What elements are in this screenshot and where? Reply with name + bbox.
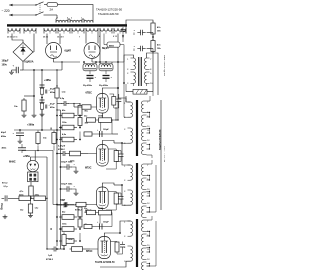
resistor R rail — [55, 85, 66, 98]
TD secondary tap links — [147, 231, 151, 267]
driver tube V3 6N9S — [27, 160, 38, 171]
wire V5 cathode — [108, 149, 116, 151]
label +400v — [44, 79, 51, 82]
T1 primary winding c — [84, 13, 93, 23]
wire switch to T1 primary — [44, 15, 58, 18]
choke Dr1 — [83, 61, 97, 71]
wire V7 plate — [104, 233, 120, 237]
T1 primary jumpers — [56, 18, 84, 20]
svg-text:100μF: 100μF — [2, 60, 9, 63]
wire TB conns — [117, 83, 130, 143]
rail right edge — [158, 60, 161, 210]
wire V7 grid — [90, 248, 98, 250]
wire V4 cathode — [101, 113, 103, 120]
svg-text:100μF: 100μF — [103, 129, 110, 131]
svg-text:2A: 2A — [50, 8, 54, 12]
svg-text:4: 4 — [67, 16, 68, 19]
svg-text:К73В-2: К73В-2 — [75, 210, 83, 212]
wire V6 grid — [88, 204, 97, 206]
T1 secondary winding 8 — [114, 28, 126, 33]
svg-text:1,5к: 1,5к — [35, 208, 39, 210]
cap C Dr2 — [103, 70, 113, 82]
rectifier tube V1 6Ts4P — [46, 43, 62, 59]
wire fuse to T1 primary — [60, 5, 93, 13]
svg-text:47μF: 47μF — [50, 103, 55, 106]
svg-text:12: 12 — [147, 259, 149, 261]
ground R bleed — [22, 113, 27, 117]
svg-text:100μF 160в: 100μF 160в — [61, 162, 73, 164]
svg-text:7: 7 — [147, 102, 148, 104]
transformer TA — [127, 58, 152, 85]
svg-text:11: 11 — [147, 193, 149, 195]
ground C3 — [18, 139, 23, 143]
label TAN70 bottom — [95, 261, 115, 264]
svg-text:16 15 8: 16 15 8 — [57, 37, 65, 39]
TD out wires — [147, 216, 157, 266]
label C3 — [1, 131, 7, 138]
svg-text:100μF 160в: 100μF 160в — [61, 184, 73, 186]
V6 bias row2 — [84, 222, 112, 230]
svg-text:100v: 100v — [2, 63, 8, 66]
T1 secondary winding 3 — [44, 28, 56, 33]
bridge rectifier VD1 KC402A — [13, 43, 33, 62]
ground x34 — [32, 113, 37, 117]
svg-text:1: 1 — [124, 166, 125, 168]
label Rf1 — [157, 26, 162, 33]
label C Dr2 — [99, 84, 109, 87]
wire V6 cathode — [108, 192, 116, 194]
label TAN100 line1 — [96, 8, 122, 12]
input resistor Rg2 — [30, 195, 47, 201]
label out top — [163, 55, 167, 77]
svg-text:~ 220: ~ 220 — [2, 9, 10, 13]
wire V3 below2 — [30, 182, 32, 186]
svg-text:100Ω: 100Ω — [98, 208, 103, 210]
T1 secondary winding 5 — [72, 28, 84, 33]
TC out wires — [147, 160, 157, 212]
rectifier tube V2 6Ts4P — [84, 43, 100, 59]
cap C2a side — [46, 90, 51, 94]
wire bridge out — [23, 62, 42, 71]
T1 core — [7, 24, 127, 26]
label TAN100 line2 — [98, 12, 119, 16]
label C2b — [50, 103, 55, 109]
TB out wires — [147, 96, 153, 158]
label V7 6P3S — [86, 250, 93, 253]
coupling C ch B — [46, 247, 58, 262]
svg-text:2: 2 — [124, 129, 125, 131]
svg-text:ТАН70-127/220-50: ТАН70-127/220-50 — [95, 261, 115, 264]
V6 cathode C — [116, 193, 123, 204]
resistor R grid4 — [62, 233, 74, 250]
svg-text:7: 7 — [147, 165, 148, 167]
transformer TC — [124, 163, 149, 217]
T1 secondary winding 4 — [58, 28, 70, 33]
svg-text:2: 2 — [124, 236, 125, 238]
cap Cd — [18, 144, 26, 153]
wire TD conns — [100, 221, 131, 267]
wire sec to bridge ac2 — [33, 34, 35, 41]
svg-text:12: 12 — [147, 203, 149, 205]
V4 bias row1 — [86, 118, 118, 123]
svg-text:10: 10 — [147, 126, 149, 128]
label TB vertical — [159, 129, 162, 150]
svg-text:2: 2 — [127, 73, 128, 75]
svg-text:К73В-2: К73В-2 — [58, 149, 66, 151]
T1 secondary winding 1 — [8, 28, 20, 33]
svg-text:3: 3 — [124, 261, 125, 263]
svg-text:6Ц4П: 6Ц4П — [65, 50, 72, 53]
cap C2a — [40, 85, 45, 94]
label ~220 — [2, 9, 10, 13]
driver tube V3 base — [28, 172, 38, 182]
label V6 bias — [84, 208, 110, 223]
svg-text:7: 7 — [147, 221, 148, 223]
svg-text:1: 1 — [124, 103, 125, 105]
svg-text:2: 2 — [124, 191, 125, 193]
coupling R ch B — [70, 247, 91, 252]
input cap Cin — [2, 183, 14, 202]
T1 primary winding a — [56, 19, 68, 23]
T1 secondary winding 7 — [100, 28, 112, 33]
svg-text:11: 11 — [147, 249, 149, 251]
svg-text:2: 2 — [124, 247, 125, 249]
cap C2b — [40, 100, 45, 109]
wire V5 to T — [114, 142, 123, 144]
svg-text:3: 3 — [127, 83, 128, 85]
cap C3 40uF — [13, 130, 25, 139]
svg-text:450в: 450в — [2, 147, 7, 150]
cap C Dr1 — [87, 70, 97, 82]
cap Cm3 — [56, 199, 87, 212]
label +295v — [23, 155, 30, 158]
svg-text:КЦ402А: КЦ402А — [25, 61, 34, 64]
svg-text:11: 11 — [147, 130, 149, 132]
T1 primary pin numbers — [57, 16, 82, 19]
svg-text:5: 5 — [57, 17, 58, 19]
wire input row — [53, 151, 57, 205]
cap Cm2 — [60, 184, 79, 196]
svg-text:6П3С: 6П3С — [86, 92, 93, 95]
V5 cathode C — [116, 151, 123, 162]
rail x118 — [117, 57, 118, 121]
wire sec to V1 anode2 — [59, 34, 61, 45]
wire R2 down — [37, 146, 39, 151]
wire V2 cathode — [91, 59, 93, 63]
V4 cathode R — [110, 94, 116, 105]
TB secondary tap links — [147, 112, 151, 150]
resistor R TA — [126, 84, 153, 96]
cap C neon — [121, 27, 126, 42]
TA core — [138, 57, 142, 86]
output tube V7 6P3S — [98, 237, 111, 259]
svg-text:7: 7 — [150, 59, 151, 61]
wire V1 cathode — [54, 59, 81, 63]
svg-text:3: 3 — [71, 17, 72, 19]
label 2A — [50, 8, 54, 12]
svg-text:4,7к: 4,7к — [20, 190, 24, 193]
svg-text:12: 12 — [147, 140, 149, 142]
wire Rf2 out — [147, 49, 153, 92]
svg-text:Ф: Ф — [50, 127, 52, 131]
svg-text:К73В-2: К73В-2 — [46, 259, 54, 261]
svg-text:6П3С: 6П3С — [86, 250, 93, 253]
svg-text:1: 1 — [124, 222, 125, 224]
label V4 bias — [84, 116, 110, 131]
output tube V5 6P3S — [97, 145, 109, 167]
wire V6 plate — [102, 183, 114, 187]
svg-text:Вых. на 25 ГД-26: Вых. на 25 ГД-26 — [163, 55, 165, 77]
resistor R2 — [36, 131, 40, 146]
svg-text:30к: 30к — [84, 208, 87, 210]
svg-text:+295в: +295в — [23, 155, 30, 158]
V7 cathode R — [115, 232, 121, 252]
wire TC conns — [122, 143, 131, 205]
T1 secondary winding 6 — [86, 28, 98, 33]
svg-text:2: 2 — [127, 69, 128, 71]
ground C1 — [9, 70, 14, 74]
wire x47 down — [46, 157, 48, 249]
cap C1 100uF — [13, 65, 24, 74]
output tube V4 6P3S — [97, 94, 109, 114]
output tube V6 6P3S — [97, 187, 109, 209]
resistor R cathode1 — [20, 186, 34, 198]
rail x124 — [123, 62, 125, 84]
wire R3 down — [53, 146, 55, 151]
T1 primary winding b — [70, 19, 82, 23]
switch S1 pole B — [35, 12, 43, 16]
svg-text:9: 9 — [150, 73, 151, 75]
svg-text:30μ 450в: 30μ 450в — [99, 84, 109, 87]
wire sec to V2 anode1 — [85, 34, 87, 44]
svg-text:+360в: +360в — [27, 124, 35, 127]
svg-text:100Ω: 100Ω — [98, 116, 103, 118]
svg-text:Вход: Вход — [1, 203, 4, 210]
wire V6 bias down — [100, 213, 112, 227]
label C2a — [50, 88, 55, 94]
wire sec to neon — [117, 34, 119, 58]
wire V4 grid — [73, 103, 96, 109]
cap Cm1 — [60, 162, 79, 174]
label +360v — [27, 124, 35, 127]
transformer TD — [124, 219, 149, 270]
svg-text:2: 2 — [124, 180, 125, 182]
wire V3 plate1 — [31, 157, 48, 161]
switch S1 pole A — [35, 2, 43, 6]
V5 cathode R — [106, 151, 118, 170]
wire V3 plate2 — [34, 151, 36, 162]
svg-text:1: 1 — [127, 59, 128, 61]
wire V5 grid — [88, 153, 97, 155]
label out mid — [164, 146, 168, 162]
bias network ch B — [56, 200, 89, 244]
svg-text:1μФ: 1μФ — [48, 254, 52, 257]
wire V4 plate — [102, 87, 119, 93]
V4 cathode C — [114, 94, 122, 121]
wire bridge right up — [33, 40, 34, 52]
label KC402A — [25, 61, 34, 64]
svg-text:Вых. 4 Ом ГД: Вых. 4 Ом ГД — [164, 146, 165, 162]
cap Cf2 — [134, 46, 146, 51]
wire rail y130 — [14, 129, 60, 131]
wire V5 plate — [102, 141, 114, 145]
V7 cathode C — [117, 242, 125, 255]
svg-text:30μ 450в: 30μ 450в — [83, 84, 93, 87]
resistor R3 — [52, 131, 56, 146]
svg-text:6Ц4П: 6Ц4П — [102, 47, 109, 50]
label 6N9S — [9, 160, 16, 164]
wire coil to filter — [126, 20, 153, 34]
label V6 6P3S — [85, 210, 92, 213]
wire V6 to T — [114, 184, 123, 186]
svg-text:10: 10 — [147, 245, 149, 247]
AC input line N — [9, 14, 36, 16]
label 450v — [2, 147, 7, 150]
svg-text:10: 10 — [150, 83, 152, 85]
svg-text:1: 1 — [81, 17, 82, 19]
wire sec to V1 anode1 — [46, 34, 48, 45]
label V4 6P3S — [86, 92, 93, 95]
coupling R ch A — [68, 151, 89, 162]
bias network ch A — [56, 98, 89, 142]
svg-text:Ф: Ф — [50, 227, 52, 231]
label R2 — [43, 138, 47, 140]
ground in — [3, 215, 8, 219]
svg-text:0,47μФ: 0,47μФ — [58, 145, 65, 148]
resistor Rin — [20, 198, 38, 217]
resistor Rf1 — [151, 22, 155, 36]
svg-text:10: 10 — [147, 189, 149, 191]
cap Cf1 — [134, 30, 146, 35]
svg-text:К73-2: К73-2 — [2, 183, 8, 185]
label R bleed — [14, 106, 18, 108]
TC secondary tap links — [147, 175, 151, 213]
wire Rf1 junction — [147, 33, 154, 41]
rail x60 — [56, 109, 60, 249]
svg-text:1μФ: 1μФ — [61, 199, 65, 202]
svg-text:6Н9С: 6Н9С — [9, 160, 16, 164]
svg-text:ТАН100-220-50: ТАН100-220-50 — [98, 12, 119, 16]
label F b — [50, 227, 52, 231]
svg-text:450в: 450в — [1, 135, 7, 138]
resistor R bleed — [22, 98, 26, 113]
wire sec to V2 anode2 — [97, 34, 99, 44]
svg-text:8: 8 — [150, 69, 151, 71]
transformer TB — [124, 100, 149, 156]
svg-text:6П3С: 6П3С — [85, 167, 92, 170]
wire B+ bus — [92, 61, 124, 63]
svg-text:30к: 30к — [84, 116, 87, 118]
wire grid4 — [46, 198, 64, 250]
label V5 6P3S — [85, 167, 92, 170]
T1 secondary pin numbers — [7, 35, 118, 38]
svg-text:40μF: 40μF — [1, 131, 7, 134]
cap C2b side — [46, 105, 51, 109]
wire V4 bias down — [101, 119, 118, 134]
T1 secondary winding 2 — [24, 28, 36, 33]
lamp box BK50 — [104, 34, 124, 63]
label V1 6Ts4P — [65, 50, 72, 53]
wire node down x42 — [41, 69, 43, 130]
wire heater x100 — [99, 34, 101, 63]
svg-text:0,1μ: 0,1μ — [4, 186, 9, 188]
input resistor Rg1 — [14, 195, 31, 201]
label C1 100uF 100v — [2, 60, 9, 67]
V6 cathode R — [102, 193, 118, 213]
wire TA top — [124, 53, 158, 62]
svg-text:ТАН70-127/220-50: ТАН70-127/220-50 — [159, 129, 162, 150]
wire V7 cathode — [111, 241, 118, 243]
ground x42b — [40, 109, 45, 116]
coupling C ch A — [56, 145, 67, 157]
rail x57 — [56, 70, 58, 246]
svg-text:450в: 450в — [50, 91, 55, 94]
svg-text:100μF: 100μF — [103, 221, 110, 223]
resistor Rf2 — [151, 39, 155, 53]
fuse F1 2A — [44, 3, 60, 7]
junction x42 — [41, 97, 43, 99]
wire x34 rail — [24, 69, 35, 113]
wire TA bottom — [134, 83, 147, 86]
svg-text:38 36: 38 36 — [43, 37, 49, 39]
AC input line L — [9, 4, 36, 6]
svg-text:+485в: +485в — [44, 79, 51, 82]
wire y72 — [42, 61, 63, 70]
label Vhod — [1, 203, 4, 210]
label F a — [50, 127, 52, 131]
switch S1 link — [39, 3, 41, 13]
V6 bias row1 — [86, 210, 112, 215]
plate bus — [22, 150, 53, 151]
label C Dr1 — [83, 84, 93, 87]
label V2 6Ts4P — [102, 47, 109, 50]
choke Dr2 — [99, 61, 113, 71]
svg-text:6,8μ: 6,8μ — [60, 98, 65, 100]
wire sec to bridge ac1 — [12, 34, 23, 43]
label Rf2 — [157, 44, 162, 51]
label R3 — [60, 138, 64, 140]
svg-text:450в: 450в — [50, 106, 55, 109]
svg-text:29 21 12 11: 29 21 12 11 — [7, 37, 18, 39]
V4 bias row2 — [84, 130, 112, 138]
